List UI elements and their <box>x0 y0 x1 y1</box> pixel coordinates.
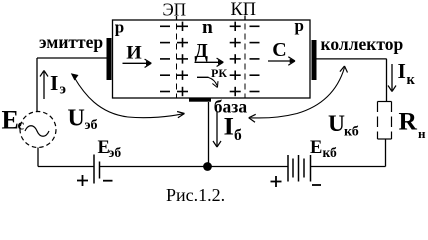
svg-text:I: I <box>398 59 406 83</box>
svg-text:U: U <box>328 111 345 137</box>
svg-text:н: н <box>418 126 426 141</box>
svg-text:Е: Е <box>2 106 19 135</box>
svg-text:эб: эб <box>109 145 122 160</box>
svg-text:Рис.1.2.: Рис.1.2. <box>166 185 225 205</box>
svg-text:с: с <box>18 118 25 134</box>
svg-text:кб: кб <box>344 125 359 140</box>
svg-text:ЭП: ЭП <box>163 0 187 20</box>
svg-text:И: И <box>126 44 142 64</box>
svg-text:э: э <box>60 82 66 98</box>
svg-text:p: p <box>295 16 304 35</box>
svg-text:R: R <box>399 107 418 136</box>
svg-text:Е: Е <box>310 138 322 158</box>
svg-text:U: U <box>68 106 85 132</box>
svg-text:I: I <box>224 114 235 141</box>
svg-text:p: p <box>115 17 124 36</box>
svg-text:кб: кб <box>323 145 337 160</box>
svg-text:РК: РК <box>211 66 227 80</box>
svg-text:n: n <box>202 17 213 38</box>
svg-text:I: I <box>50 71 58 95</box>
svg-text:коллектор: коллектор <box>321 34 404 54</box>
svg-text:КП: КП <box>231 0 257 20</box>
svg-text:С: С <box>272 39 286 61</box>
svg-text:эб: эб <box>85 118 98 133</box>
svg-text:б: б <box>234 127 242 144</box>
svg-text:к: к <box>407 72 416 88</box>
svg-text:Д: Д <box>195 41 209 62</box>
svg-text:эмиттер: эмиттер <box>39 32 103 52</box>
